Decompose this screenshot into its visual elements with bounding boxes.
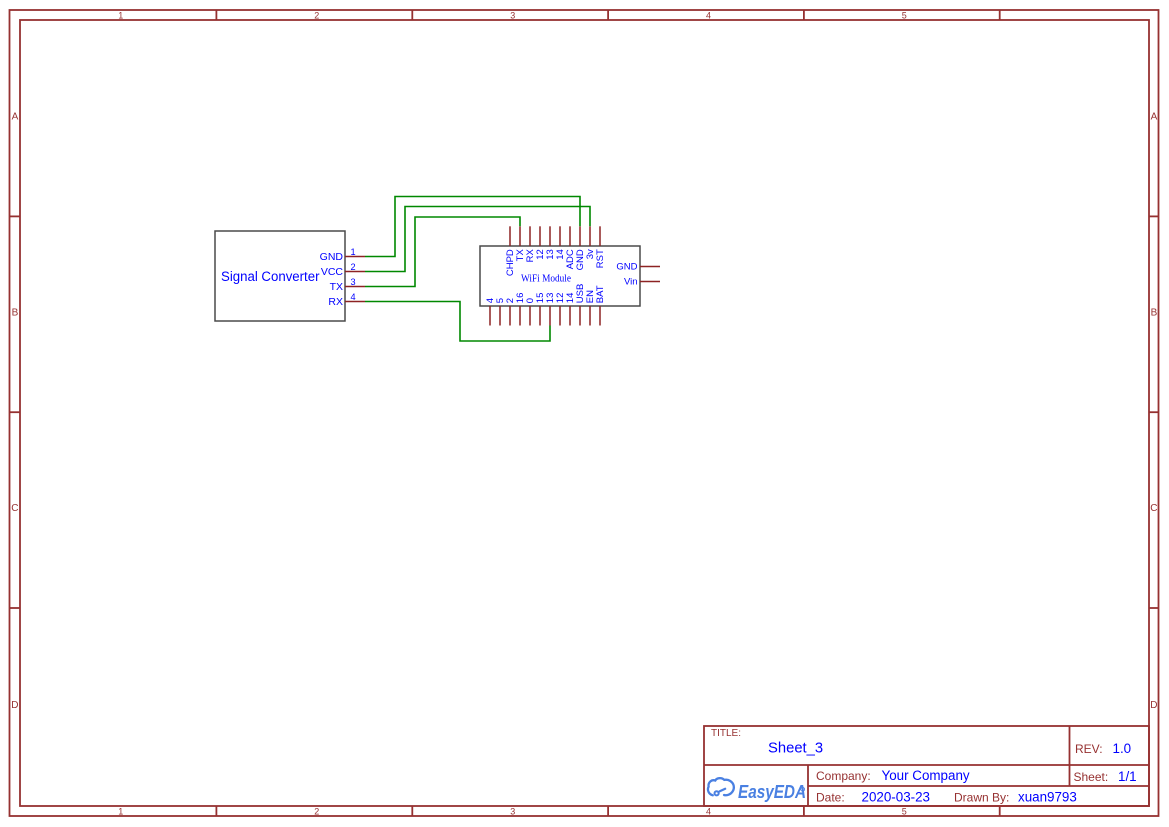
- svg-text:BAT: BAT: [595, 285, 606, 303]
- svg-text:A: A: [1151, 111, 1158, 122]
- svg-text:2: 2: [314, 11, 319, 21]
- title block: [704, 726, 1149, 806]
- wifi top pin 13: [549, 226, 551, 246]
- svg-text:Signal Converter: Signal Converter: [221, 269, 320, 284]
- svg-text:3: 3: [510, 11, 515, 21]
- wire RX to 13: [365, 302, 550, 342]
- wifi top pin CHPD: [509, 226, 511, 246]
- svg-text:4: 4: [706, 807, 711, 817]
- svg-text:5: 5: [902, 11, 907, 21]
- svg-text:4: 4: [350, 292, 355, 302]
- svg-text:B: B: [12, 307, 19, 318]
- svg-text:Vin: Vin: [624, 277, 638, 288]
- EasyEDA logo: [708, 778, 805, 795]
- svg-text:3: 3: [510, 807, 515, 817]
- wifi bottom pin 13: [549, 306, 551, 326]
- wifi bottom pin 2: [509, 306, 511, 326]
- svg-text:1: 1: [118, 11, 123, 21]
- wifi bottom pin 5: [499, 306, 501, 326]
- svg-text:Sheet:: Sheet:: [1074, 770, 1109, 784]
- wifi top pin 3v: [589, 226, 591, 246]
- wifi bottom pin USB: [579, 306, 581, 326]
- wifi top pin RX: [529, 226, 531, 246]
- wifi bottom pin 16: [519, 306, 521, 326]
- svg-text:D: D: [11, 700, 18, 711]
- wifi bottom pin EN: [589, 306, 591, 326]
- svg-text:GND: GND: [616, 262, 637, 273]
- svg-text:EasyEDA: EasyEDA: [738, 782, 806, 802]
- wifi right pin Vin: [640, 281, 660, 283]
- svg-text:B: B: [1151, 307, 1158, 318]
- wifi bottom pin 12: [559, 306, 561, 326]
- wifi bottom pin 4: [489, 306, 491, 326]
- svg-text:RST: RST: [595, 249, 606, 268]
- signal converter box: [215, 231, 345, 321]
- wifi top pin 12: [539, 226, 541, 246]
- wifi top pin 14: [559, 226, 561, 246]
- wifi bottom pin 15: [539, 306, 541, 326]
- wifi bottom pin 0: [529, 306, 531, 326]
- wires: [365, 197, 590, 342]
- pin 2 VCC: [345, 271, 365, 273]
- wire GND to GND: [365, 197, 580, 257]
- svg-text:TITLE:: TITLE:: [711, 728, 741, 739]
- svg-text:2: 2: [314, 807, 319, 817]
- wifi right pin GND: [640, 266, 660, 268]
- svg-text:C: C: [1150, 503, 1157, 514]
- wifi top pin ADC: [569, 226, 571, 246]
- svg-text:xuan9793: xuan9793: [1018, 790, 1077, 805]
- pin 1 GND: [345, 256, 365, 258]
- pin 3 TX: [345, 286, 365, 288]
- svg-text:Sheet_3: Sheet_3: [768, 741, 823, 757]
- svg-text:4: 4: [706, 11, 711, 21]
- svg-text:C: C: [11, 503, 18, 514]
- svg-text:Your Company: Your Company: [882, 768, 970, 783]
- wifi module box: [480, 246, 640, 306]
- svg-text:Date:: Date:: [816, 791, 845, 805]
- wifi bottom pin 14: [569, 306, 571, 326]
- svg-text:1.0: 1.0: [1113, 741, 1132, 756]
- wire TX to TX: [365, 217, 520, 287]
- svg-text:GND: GND: [320, 251, 344, 263]
- svg-text:D: D: [1150, 700, 1157, 711]
- wifi top pin GND: [579, 226, 581, 246]
- svg-text:1: 1: [118, 807, 123, 817]
- svg-text:2: 2: [350, 262, 355, 272]
- svg-text:2020-03-23: 2020-03-23: [862, 790, 931, 805]
- svg-text:REV:: REV:: [1075, 742, 1103, 756]
- title block text: [711, 728, 1108, 805]
- svg-text:1/1: 1/1: [1118, 769, 1137, 784]
- svg-text:1: 1: [350, 247, 355, 257]
- wire VCC to 3v: [365, 207, 590, 272]
- pin 4 RX: [345, 301, 365, 303]
- wifi top pin RST: [599, 226, 601, 246]
- svg-text:5: 5: [902, 807, 907, 817]
- svg-text:3: 3: [350, 277, 355, 287]
- svg-text:TX: TX: [330, 281, 343, 293]
- wifi bottom pin BAT: [599, 306, 601, 326]
- svg-text:VCC: VCC: [321, 266, 344, 278]
- svg-text:Company:: Company:: [816, 769, 871, 783]
- svg-text:A: A: [12, 111, 19, 122]
- svg-text:RX: RX: [328, 296, 343, 308]
- wifi top pin TX: [519, 226, 521, 246]
- svg-text:Drawn By:: Drawn By:: [954, 791, 1009, 805]
- svg-text:WiFi Module: WiFi Module: [521, 274, 571, 285]
